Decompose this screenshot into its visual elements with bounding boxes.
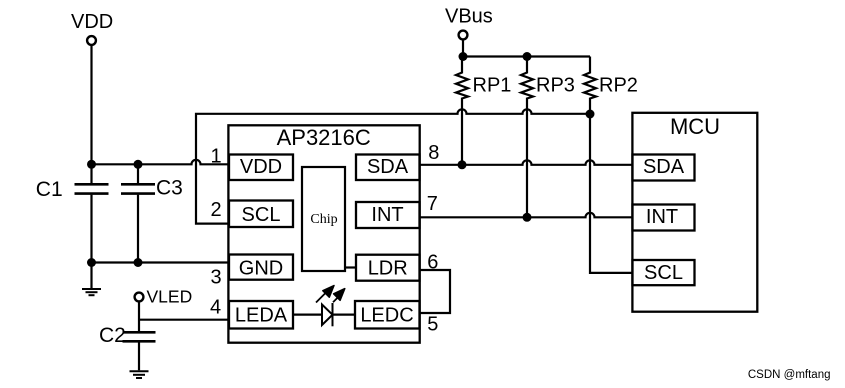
svg-text:VDD: VDD: [71, 11, 113, 33]
svg-text:INT: INT: [646, 206, 678, 228]
svg-text:SDA: SDA: [367, 156, 409, 178]
svg-text:7: 7: [427, 193, 438, 215]
svg-text:VDD: VDD: [240, 156, 282, 178]
svg-text:5: 5: [427, 314, 438, 336]
svg-text:6: 6: [427, 252, 438, 274]
svg-text:CSDN @mftang: CSDN @mftang: [748, 369, 831, 381]
svg-text:4: 4: [210, 296, 221, 318]
svg-text:INT: INT: [371, 204, 403, 226]
svg-text:C3: C3: [156, 177, 183, 200]
svg-text:SCL: SCL: [242, 204, 281, 226]
svg-text:LDR: LDR: [368, 258, 408, 280]
svg-text:AP3216C: AP3216C: [277, 125, 371, 150]
svg-text:LEDC: LEDC: [360, 305, 413, 327]
svg-text:MCU: MCU: [670, 114, 720, 139]
svg-text:RP3: RP3: [536, 74, 575, 96]
svg-text:Chip: Chip: [310, 212, 337, 227]
svg-text:LEDA: LEDA: [235, 305, 288, 327]
svg-text:VLED: VLED: [147, 286, 193, 306]
svg-text:2: 2: [210, 199, 221, 221]
svg-text:SDA: SDA: [643, 156, 685, 178]
svg-text:C1: C1: [36, 178, 63, 201]
svg-text:GND: GND: [239, 258, 283, 280]
svg-text:RP2: RP2: [599, 74, 638, 96]
svg-text:SCL: SCL: [644, 262, 683, 284]
svg-text:3: 3: [210, 266, 221, 288]
svg-text:RP1: RP1: [473, 74, 512, 96]
svg-text:VBus: VBus: [445, 5, 493, 27]
svg-text:C2: C2: [99, 324, 126, 347]
svg-text:1: 1: [210, 146, 221, 168]
svg-text:8: 8: [428, 142, 439, 164]
